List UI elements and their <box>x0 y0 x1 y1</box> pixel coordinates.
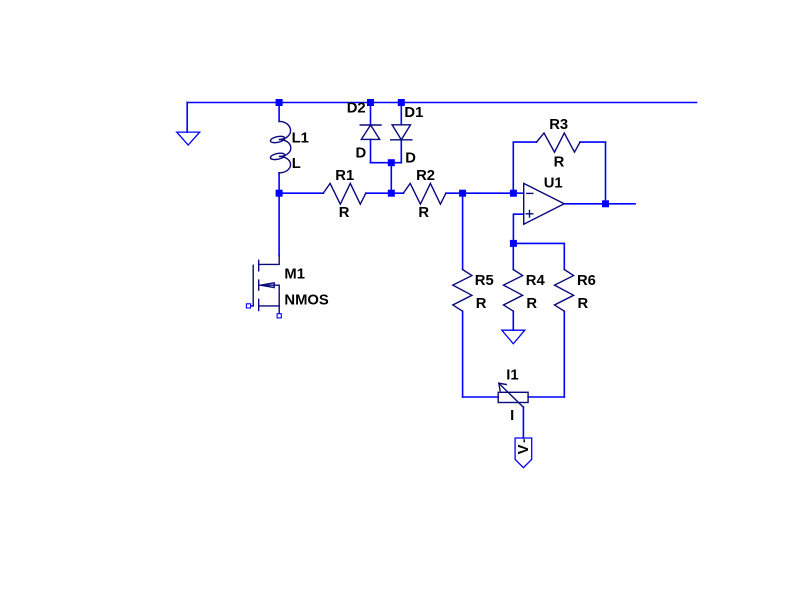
svg-text:M1: M1 <box>284 266 305 282</box>
svg-text:L1: L1 <box>292 130 309 146</box>
svg-text:R: R <box>418 205 429 221</box>
svg-text:U1: U1 <box>544 176 563 192</box>
svg-text:R: R <box>476 296 487 312</box>
svg-text:R5: R5 <box>475 273 494 289</box>
svg-text:L: L <box>292 156 301 172</box>
svg-text:D2: D2 <box>347 101 366 117</box>
svg-text:D: D <box>405 150 416 166</box>
svg-text:R: R <box>578 296 589 312</box>
svg-text:I1: I1 <box>506 368 518 384</box>
svg-text:D1: D1 <box>404 105 423 121</box>
svg-text:V: V <box>516 444 532 454</box>
svg-text:R3: R3 <box>549 117 568 133</box>
svg-text:R: R <box>526 296 537 312</box>
svg-text:R: R <box>339 205 350 221</box>
svg-text:I: I <box>510 408 514 424</box>
svg-text:D: D <box>356 145 367 161</box>
svg-text:R4: R4 <box>526 273 546 289</box>
svg-text:R2: R2 <box>416 168 435 184</box>
svg-text:R1: R1 <box>335 168 354 184</box>
svg-text:NMOS: NMOS <box>284 293 329 309</box>
svg-text:R: R <box>554 154 565 170</box>
svg-text:R6: R6 <box>577 273 596 289</box>
